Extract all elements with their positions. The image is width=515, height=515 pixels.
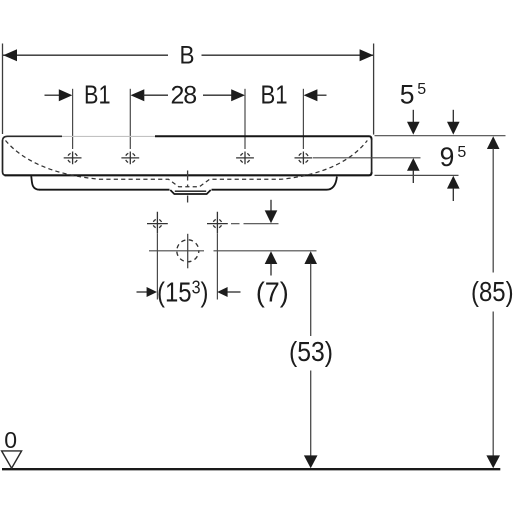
dimension 9-5 up arrow tail at bottom edge [452, 188, 454, 201]
tap hole cross 1 [64, 152, 82, 165]
dimension (15-3) right arrowhead [217, 287, 227, 297]
dimension B line right segment [202, 54, 374, 56]
washbasin lower tier bottom edge right part [212, 177, 337, 190]
dimension 9-5 up arrow tail at tap axis [412, 170, 414, 183]
dimension 28 line left [143, 94, 168, 96]
dimension 9-5 up arrowhead at tap axis [407, 158, 420, 171]
washbasin left edge [3, 141, 7, 176]
dimension 5-5 down arrow 1 tail [412, 110, 414, 122]
washbasin top edge middle faint segment [62, 135, 155, 137]
washbasin lower tier left edge [31, 176, 39, 190]
washbasin bottom edge of upper tier [5, 172, 372, 175]
datum triangle [2, 451, 22, 468]
extension line to tap hole 4 [302, 89, 304, 149]
dimension (7) up arrowhead [265, 251, 278, 264]
dimension (85) up arrowhead [487, 136, 500, 149]
tap hole cross 3 [236, 152, 254, 165]
dimension B line left segment [3, 54, 168, 56]
dimension B1 right arrowhead [304, 89, 318, 101]
tap hole axis extension line to right [313, 157, 421, 159]
drain circle horizontal centerline [149, 250, 317, 252]
svg-text:28: 28 [170, 81, 196, 109]
extension line to tap hole 3 [244, 89, 246, 149]
fixing hole cross 1 [147, 212, 168, 234]
washbasin top edge right thick segment [155, 136, 372, 139]
svg-text:(85): (85) [471, 277, 514, 307]
dimension 5-5 down arrowhead 1 [407, 122, 420, 135]
dimension B right extension line [373, 44, 375, 135]
dimension B right arrowhead [360, 49, 374, 61]
dimension 9-5 up arrowhead at bottom edge [447, 176, 460, 189]
dimension 5-5 down arrow 2 tail [452, 110, 454, 122]
dimension B left extension line [2, 44, 4, 135]
drain circle vertical centerline [187, 234, 189, 268]
dimension (7) down arrowhead [265, 210, 278, 223]
extension line to tap hole 1 [72, 89, 74, 149]
fixing hole 1 extension line down [156, 233, 158, 299]
dimension (85) line upper [492, 149, 494, 273]
tap hole cross 2 [121, 152, 139, 165]
drain center line upper segments [187, 171, 189, 203]
dimension 28 line right [203, 94, 232, 96]
dimension B1 left arrowhead [59, 89, 73, 101]
dimension (85) line lower [492, 312, 494, 457]
dimension (15-3) left arrow tail [137, 291, 148, 293]
dimension (53) up arrowhead [304, 251, 317, 264]
drain fitting inner line [175, 190, 206, 192]
dimension B1 left arrow tail [45, 94, 61, 96]
washbasin lower tier bottom edge left part [39, 189, 170, 191]
tap hole cross 4 [295, 152, 313, 165]
dimension 5-5 down arrowhead 2 [447, 122, 460, 135]
floor line [2, 468, 500, 470]
svg-text:(153): (153) [157, 276, 209, 307]
dimension 28 left arrowhead [131, 89, 145, 101]
dimension B left arrowhead [3, 49, 17, 61]
washbasin right edge [371, 139, 373, 173]
drain fitting notch outline [170, 190, 210, 194]
dimension (15-3) right arrow tail [227, 291, 241, 293]
dimension B1 right arrow tail [317, 94, 327, 96]
dimension 28 right arrowhead [231, 89, 245, 101]
svg-text:9: 9 [440, 142, 455, 172]
svg-text:B1: B1 [84, 82, 111, 110]
fixing hole 2 extension line down [216, 233, 218, 299]
dimension (7) down arrow tail [270, 200, 272, 211]
dimension (53) down arrowhead [304, 455, 318, 468]
svg-text:B1: B1 [260, 81, 287, 110]
svg-text:(7): (7) [256, 276, 289, 307]
svg-text:5: 5 [400, 79, 415, 109]
dimension (85) down arrowhead [486, 455, 500, 468]
fixing hole cross 2 [207, 212, 228, 234]
svg-text:0: 0 [4, 427, 17, 453]
inner basin contour (dashed) [6, 141, 368, 187]
bottom edge reference line right [375, 174, 459, 176]
extension line to tap hole 2 [129, 89, 131, 149]
top edge reference line right [375, 135, 506, 137]
drain trap circle dashed [177, 240, 199, 262]
fixing hole axis dashes right [231, 223, 279, 225]
svg-text:(53): (53) [289, 336, 333, 368]
svg-text:B: B [179, 42, 194, 70]
svg-text:5: 5 [457, 144, 466, 161]
dimension (15-3) left arrowhead [147, 287, 157, 297]
dimension (53) line upper [310, 264, 312, 337]
svg-text:5: 5 [417, 81, 426, 98]
washbasin top edge left dark segment [3, 136, 63, 141]
dimension (7) up arrow tail [270, 264, 272, 276]
dimension (53) line lower [310, 371, 312, 457]
